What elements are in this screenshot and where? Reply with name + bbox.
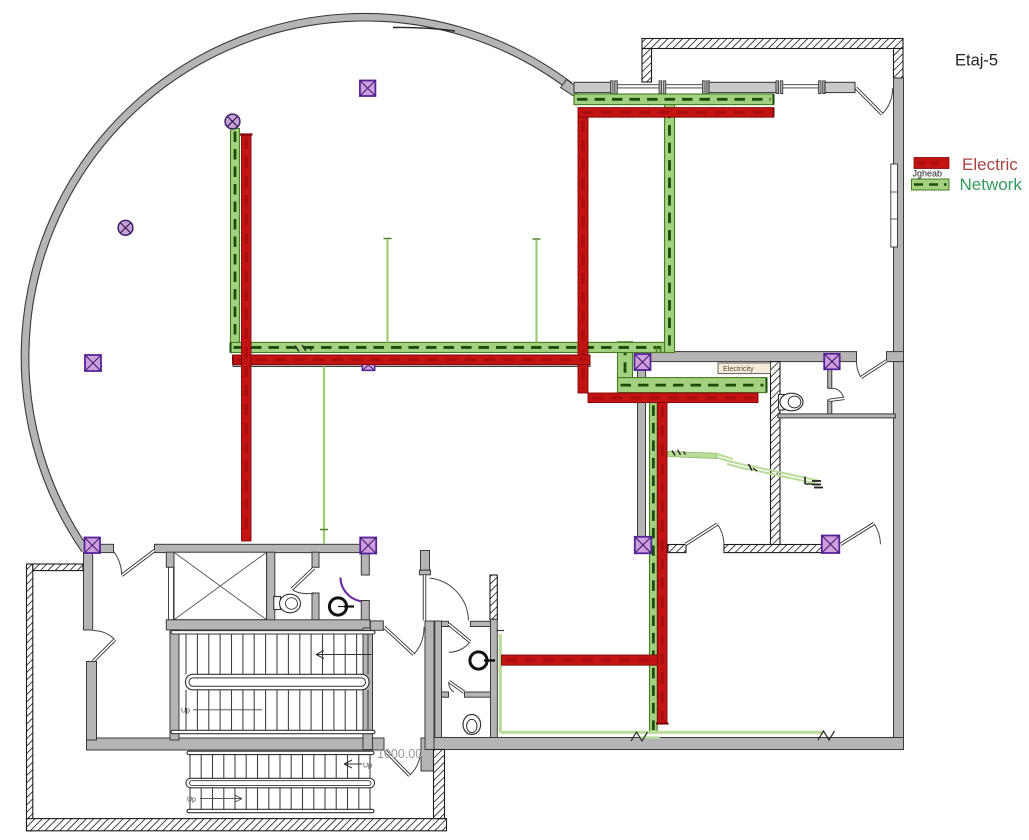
- electric cable: hall vertical: [242, 134, 252, 541]
- wc sink room door: [449, 642, 470, 653]
- stairs lower handrail loop: [186, 778, 375, 788]
- green room border horizontal: [500, 731, 822, 734]
- wall: right wing north: [651, 352, 857, 362]
- annex east wall (hatched): [434, 750, 445, 819]
- electric cable: lower vertical: [658, 403, 668, 724]
- wall: wc1/wc2 divider lower: [312, 593, 319, 621]
- network tray left cap: [230, 342, 232, 352]
- toilet in wc1: [274, 597, 281, 610]
- wall stub at south door: [421, 738, 434, 771]
- terrace north wall (hatched): [642, 39, 903, 49]
- cable end connector: [804, 477, 806, 485]
- lower flight direction arrow: [344, 763, 362, 765]
- wall: right wing middle vertical: [638, 362, 646, 537]
- toilet in lower wc: [463, 715, 481, 735]
- window frame ticks: [611, 81, 614, 94]
- wall: wc divider east: [465, 692, 491, 697]
- stairs lower flight treads: [189, 755, 191, 779]
- svg-text:Electricity: Electricity: [723, 364, 754, 373]
- wall: wc1/wc2 divider upper: [312, 552, 319, 567]
- wall: lobby top (purple box to door): [92, 544, 114, 552]
- wall: south interior hatched w2: [724, 545, 822, 553]
- junction box (middle north): [635, 354, 651, 370]
- wall: lobby west upper: [84, 553, 93, 630]
- junction box (stairs top): [360, 538, 376, 554]
- wc1/wc2 door: [292, 589, 314, 594]
- window sill segment 3: [825, 82, 855, 92]
- door in right wing north wall: [856, 362, 861, 378]
- wall: hatched wc east upper: [490, 575, 497, 619]
- stairs lower flight treads lower: [189, 788, 191, 810]
- electric cable: hall horizontal: [233, 355, 590, 365]
- window glazing lines: [666, 84, 703, 86]
- wall: stair hall west: [170, 630, 179, 740]
- thin wall below stub: [169, 567, 174, 620]
- terrace west wall (hatched): [642, 49, 652, 83]
- wall: wc2 east upper: [361, 552, 369, 575]
- stairs upper flight top rail: [171, 631, 375, 634]
- tick marks on hall tray: [295, 346, 299, 352]
- stairs upper flight treads: [185, 634, 187, 674]
- electric cable end cap: [656, 722, 669, 724]
- tray end cap: [766, 378, 768, 393]
- electric cable: middle horizontal: [588, 393, 758, 403]
- toilet in right bathroom: [779, 395, 785, 411]
- wc lower door: [449, 681, 454, 692]
- green room border vertical: [499, 634, 502, 732]
- svg-text:Up: Up: [363, 763, 372, 770]
- small junction box under red cable: [362, 360, 374, 371]
- svg-text:Etaj-5: Etaj-5: [955, 52, 998, 70]
- thin network drop x387: [386, 240, 388, 343]
- wall stub: corridor top: [370, 621, 383, 630]
- svg-text:Up: Up: [181, 708, 190, 715]
- elevator X diagonal: [174, 552, 267, 620]
- stairs lower flight top rail: [187, 751, 374, 754]
- curved exterior wall (arc): [25, 17, 569, 549]
- cap: [419, 570, 430, 575]
- electric cable: bottom branch: [502, 655, 658, 665]
- wall: bathroom stub lower: [828, 400, 832, 414]
- junction box (arc end): [85, 538, 101, 554]
- window frame ticks: [776, 81, 779, 94]
- lobby entry door (top): [114, 552, 122, 576]
- wall: hatched corridor/room divider: [771, 362, 781, 546]
- ceiling point (west hall): [118, 220, 133, 235]
- wall: bathroom stub upper: [828, 368, 832, 388]
- door to exterior stairs: [410, 751, 421, 776]
- wall: wc block west inner: [435, 621, 442, 738]
- window frame ticks: [703, 81, 706, 94]
- electric cable end tick: [773, 108, 775, 118]
- violet door arc wc2: [341, 578, 366, 602]
- wall: right wing north east piece: [887, 352, 904, 362]
- network tray: right wing vertical: [665, 105, 675, 353]
- thin network drop x324 (below tray): [323, 367, 325, 544]
- stray thin line near arc top: [393, 27, 455, 31]
- wall: elevator east / wc1 west: [267, 552, 275, 620]
- sink in wc room: [470, 652, 487, 669]
- network tray: wide connector vertical: [618, 342, 633, 378]
- window glazing lines: [618, 84, 660, 86]
- door south interior right: [874, 524, 881, 545]
- elevator X diagonal: [174, 552, 267, 620]
- stairs handrail loop: [186, 674, 370, 690]
- stairs lower flight bottom rail: [187, 809, 374, 812]
- wall: wc block west outer: [425, 621, 434, 750]
- terrace east wall (hatched): [894, 49, 904, 79]
- wall: stair hall east: [363, 628, 373, 750]
- network tray: wide horizontal: [618, 378, 767, 393]
- network tray: hall vertical: [231, 129, 240, 343]
- wall stub: corridor east upper: [421, 551, 430, 571]
- thin network drop x536: [535, 240, 537, 342]
- wall: wc divider west stub: [442, 692, 449, 697]
- svg-text:Network: Network: [960, 175, 1023, 194]
- network tray: lower vertical pair: [650, 402, 658, 733]
- wall: wc block top stub: [442, 621, 449, 626]
- Electricity room label: [718, 363, 771, 374]
- window sill segment 2: [709, 82, 776, 92]
- wall: block bottom: [166, 620, 370, 630]
- stair hall door to corridor: [414, 627, 424, 655]
- green border end mark left: [631, 732, 648, 741]
- window niche on east wall: [891, 164, 898, 247]
- network tray: north horizontal: [574, 94, 774, 105]
- junction box (west): [85, 355, 101, 371]
- elevator shaft: [174, 552, 267, 620]
- wall: stair block top: [155, 544, 377, 552]
- svg-text:Electric: Electric: [962, 155, 1018, 174]
- lobby west door: [93, 631, 115, 640]
- corridor door to big room: [430, 578, 469, 621]
- window frame ticks: [659, 81, 662, 94]
- window glazing lines: [783, 84, 819, 86]
- electric cable: north horizontal: [578, 108, 774, 118]
- sink in wc2: [329, 598, 346, 615]
- window sill segment 1: [574, 82, 613, 92]
- cable connector ticks: [672, 451, 675, 456]
- svg-text:Jgheab: Jgheab: [913, 169, 943, 179]
- wall: elevator west stub: [166, 552, 174, 567]
- tray stub ticks: [656, 346, 658, 353]
- door south interior left: [717, 524, 724, 544]
- network tray: hall horizontal: [231, 342, 665, 352]
- junction box (middle south): [635, 537, 652, 554]
- electric cable top cap: [240, 133, 253, 135]
- junction box (bath north): [824, 354, 840, 370]
- south exterior wall (east part): [425, 738, 904, 750]
- angled wall joining arc to window band: [561, 80, 580, 97]
- stair direction arrow: [316, 654, 372, 656]
- wall: bathroom south: [778, 414, 895, 418]
- stairs upper flight bottom rail: [171, 730, 375, 733]
- wall: wc block east: [491, 619, 498, 737]
- annex south wall (hatched): [27, 819, 447, 831]
- wall: wc2 east lower: [361, 601, 369, 622]
- wall under red cable (hall south): [233, 355, 590, 367]
- wall: wc block top east: [470, 621, 490, 626]
- window frame ticks: [819, 81, 822, 94]
- legend red swatch: [914, 158, 949, 169]
- annex north wall strip (hatched): [33, 564, 83, 571]
- green border second line: [640, 736, 660, 738]
- junction box (top center): [360, 81, 376, 97]
- electric cable left cap: [232, 355, 234, 365]
- junction box (room south): [822, 536, 840, 554]
- svg-text:1000.00: 1000.00: [377, 747, 422, 761]
- electric cable: right wing vertical: [578, 117, 588, 393]
- green border end mark: [818, 731, 835, 740]
- east exterior wall: [894, 78, 904, 750]
- svg-text:Up: Up: [187, 797, 196, 804]
- annex west wall (hatched): [27, 564, 33, 831]
- stairs upper flight treads lower: [185, 690, 187, 731]
- diagonal network cable: [668, 452, 717, 459]
- legend green swatch: [912, 179, 950, 190]
- wall: lobby west lower: [87, 662, 97, 741]
- terrace door (top right): [882, 88, 893, 114]
- ceiling point (green riser top): [225, 114, 240, 129]
- bathroom door (in stub wall): [832, 388, 844, 399]
- wall: south interior hatched w1: [668, 545, 686, 553]
- south exterior wall (west part): [87, 738, 385, 750]
- tray end cap: [773, 94, 775, 105]
